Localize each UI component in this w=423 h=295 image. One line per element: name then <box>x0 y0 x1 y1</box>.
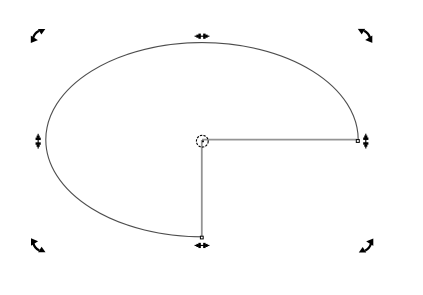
bottom skew handle <box>195 243 210 248</box>
left skew handle <box>36 134 41 149</box>
vertical radius line <box>201 140 203 236</box>
rotation pivot dashed circle <box>196 135 208 147</box>
ellipse pie arc <box>46 43 358 237</box>
top-left rotate handle <box>31 29 46 43</box>
bottom pie control square <box>200 236 203 239</box>
horizontal radius line <box>202 139 357 141</box>
right pie control square <box>356 140 359 143</box>
top-right rotate handle <box>358 29 373 43</box>
right skew handle <box>363 134 368 149</box>
bottom-right rotate handle <box>359 239 374 253</box>
bottom-left rotate handle <box>31 238 46 252</box>
rotation pivot dot <box>202 140 204 142</box>
top skew handle <box>195 34 210 39</box>
